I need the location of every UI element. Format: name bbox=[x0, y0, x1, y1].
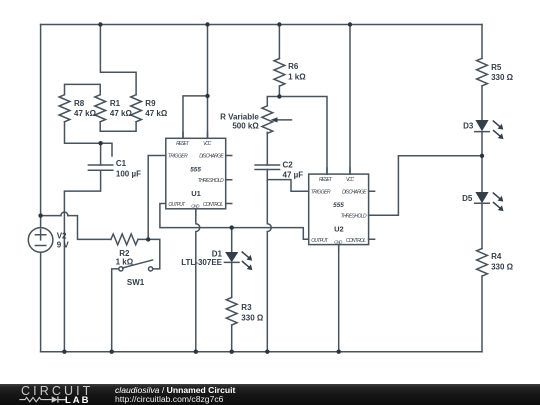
wire U2 VCC to top rail bbox=[349, 25, 351, 175]
wire R8 bottom to C1 node bbox=[65, 122, 113, 156]
wire bottom rail bbox=[41, 351, 482, 353]
svg-text:U1: U1 bbox=[191, 189, 201, 198]
svg-text:D3: D3 bbox=[463, 122, 474, 131]
svg-text:DISCHARGE: DISCHARGE bbox=[342, 189, 367, 195]
wire top rail to R6 bbox=[278, 25, 280, 59]
wire threshold net: node to U2 THRESHOLD bbox=[369, 156, 482, 216]
svg-text:R Variable: R Variable bbox=[220, 112, 259, 121]
CircuitLab logo bbox=[21, 384, 93, 398]
resistor R2 bbox=[111, 234, 138, 245]
svg-text:VCC: VCC bbox=[203, 141, 211, 147]
svg-text:SW1: SW1 bbox=[127, 278, 145, 287]
U2 pin stubs bbox=[327, 168, 350, 174]
svg-text:555: 555 bbox=[333, 202, 344, 209]
svg-text:R1: R1 bbox=[110, 99, 121, 108]
wire R4 to bottom rail bbox=[481, 276, 483, 352]
wire R2 to SW1 node bbox=[138, 239, 160, 269]
svg-text:100 µF: 100 µF bbox=[116, 169, 141, 178]
wire C2 branch to U2 TRIGGER bbox=[267, 180, 308, 192]
resistor R8 bbox=[59, 95, 70, 122]
svg-text:47 µF: 47 µF bbox=[283, 170, 304, 179]
svg-text:555: 555 bbox=[190, 166, 201, 173]
wire U1 OUTPUT to U2 OUTPUT bbox=[160, 204, 309, 240]
svg-text:TRIGGER: TRIGGER bbox=[168, 154, 188, 160]
svg-text:47 kΩ: 47 kΩ bbox=[74, 109, 97, 118]
resistor R9 bbox=[131, 95, 142, 122]
wire C1 bottom to ground rail bbox=[64, 170, 100, 351]
resistor R5 bbox=[477, 58, 488, 86]
svg-text:330 Ω: 330 Ω bbox=[491, 262, 514, 271]
svg-text:9 V: 9 V bbox=[57, 240, 70, 249]
svg-text:C1: C1 bbox=[116, 159, 127, 168]
wire R9 bottom bracket to R1 bbox=[100, 122, 136, 132]
wire top rail to R8R1R9 column bbox=[100, 25, 136, 95]
svg-text:THRESHOLD: THRESHOLD bbox=[341, 214, 367, 220]
svg-text:DISCHARGE: DISCHARGE bbox=[199, 154, 224, 160]
LED D5 bbox=[475, 192, 504, 211]
capacitor C2 bbox=[255, 165, 279, 170]
svg-text:LTL-307EE: LTL-307EE bbox=[181, 258, 222, 267]
hop over C1 ground wire bbox=[61, 212, 68, 215]
LED D1 bbox=[224, 252, 252, 270]
svg-text:TRIGGER: TRIGGER bbox=[311, 189, 331, 195]
wire D1 to R3 bbox=[231, 262, 233, 297]
resistor R6 bbox=[274, 59, 285, 87]
IC U2 box bbox=[309, 174, 369, 245]
wire U1 GND to bottom rail (hops right over output wire) bbox=[196, 209, 200, 352]
svg-text:R3: R3 bbox=[241, 303, 252, 312]
svg-text:GND: GND bbox=[334, 239, 343, 244]
wire right rail top bbox=[481, 25, 483, 59]
wire U2 GND to bottom rail bbox=[338, 245, 340, 352]
svg-text:C2: C2 bbox=[283, 161, 294, 170]
svg-text:47 kΩ: 47 kΩ bbox=[145, 109, 168, 118]
wire D5 to R4 bbox=[481, 203, 483, 248]
svg-text:R6: R6 bbox=[288, 62, 299, 71]
wire R1 top bracket to R8 bbox=[65, 84, 101, 94]
resistor R4 bbox=[477, 249, 488, 277]
wire node to U2 RESET bbox=[279, 97, 327, 175]
svg-text:U2: U2 bbox=[334, 225, 344, 234]
resistor R1 bbox=[95, 95, 106, 122]
wire node to D5 bbox=[481, 156, 483, 192]
svg-text:OUTPUT: OUTPUT bbox=[311, 238, 329, 244]
capacitor C1 bbox=[88, 165, 112, 170]
wire V2 branch to R2 (with hop over C1 wire) bbox=[41, 216, 111, 240]
resistor R3 bbox=[226, 297, 237, 325]
svg-text:R4: R4 bbox=[491, 252, 502, 261]
svg-text:330 Ω: 330 Ω bbox=[241, 313, 264, 322]
svg-text:D5: D5 bbox=[462, 194, 473, 203]
svg-text:R8: R8 bbox=[74, 99, 85, 108]
wire top rail bbox=[41, 24, 482, 26]
wire R3 to bottom rail bbox=[231, 325, 233, 352]
svg-text:VCC: VCC bbox=[346, 177, 354, 183]
wire TRIGGER U1 bbox=[148, 156, 166, 240]
LED D3 bbox=[475, 120, 504, 139]
wire C1 node down to C1 bbox=[100, 143, 102, 165]
wire D1 anode bbox=[231, 228, 233, 252]
wire left rail lower bbox=[40, 252, 42, 352]
svg-text:GND: GND bbox=[191, 204, 200, 209]
voltage source V2 bbox=[28, 228, 53, 253]
IC U1 box bbox=[166, 138, 226, 209]
wire U1 VCC/RESET to top rail bbox=[183, 25, 208, 139]
svg-text:RESET: RESET bbox=[176, 141, 190, 147]
IC U2 pin texts bbox=[311, 177, 368, 244]
svg-text:RESET: RESET bbox=[319, 177, 333, 183]
svg-text:R5: R5 bbox=[491, 63, 502, 72]
svg-text:1 kΩ: 1 kΩ bbox=[288, 73, 306, 82]
svg-text:R9: R9 bbox=[145, 99, 156, 108]
IC U1 pin texts bbox=[168, 141, 225, 208]
wire R5 to D3 bbox=[481, 86, 483, 120]
wire left rail bbox=[40, 25, 42, 228]
svg-text:THRESHOLD: THRESHOLD bbox=[198, 178, 224, 184]
wire SW1 left to bottom rail bbox=[112, 269, 119, 352]
wire R6 to node bbox=[278, 86, 280, 97]
wire R Variable to C2 bbox=[266, 132, 268, 165]
svg-text:47 kΩ: 47 kΩ bbox=[110, 109, 133, 118]
potentiometer R Variable bbox=[262, 106, 292, 134]
svg-text:500 kΩ: 500 kΩ bbox=[232, 121, 259, 130]
svg-text:1 kΩ: 1 kΩ bbox=[116, 258, 134, 267]
svg-text:OUTPUT: OUTPUT bbox=[168, 202, 186, 208]
svg-text:330 Ω: 330 Ω bbox=[491, 73, 514, 82]
svg-text:CONTROL: CONTROL bbox=[346, 238, 366, 244]
wire node to R Variable bbox=[267, 97, 279, 106]
wire C2 bottom to rail (hops right over output wire) bbox=[267, 170, 271, 352]
footer bar bbox=[0, 384, 540, 405]
svg-text:V2: V2 bbox=[57, 232, 67, 241]
svg-text:CONTROL: CONTROL bbox=[203, 202, 223, 208]
wire D3 to node bbox=[481, 132, 483, 156]
U1 pin stubs bbox=[183, 132, 208, 138]
switch SW1 bbox=[119, 260, 153, 271]
